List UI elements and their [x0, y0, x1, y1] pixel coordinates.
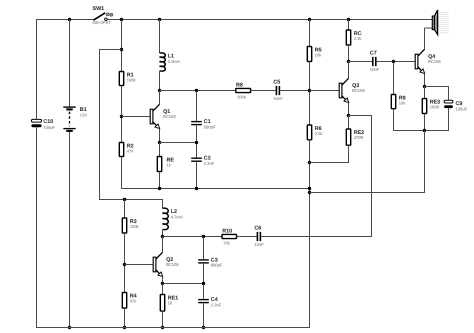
junction mid rail left end [308, 187, 311, 190]
wire C1 to C2 [196, 126, 198, 158]
wire lower-amp supply rail [99, 199, 163, 201]
wire C7 left [349, 61, 373, 63]
wire Q2 base [125, 264, 154, 266]
svg-text:BC108: BC108 [163, 114, 176, 119]
capacitor C9 [444, 100, 453, 103]
junction bottom rail / B1 [68, 326, 71, 329]
svg-text:R8: R8 [236, 82, 243, 88]
junction C3/C4 node [202, 282, 205, 285]
resistor R3 [122, 218, 126, 233]
svg-text:2.2nF: 2.2nF [211, 302, 222, 307]
wire C9 lower [448, 108, 450, 131]
wire mid rail right [310, 192, 426, 194]
resistor R1 [119, 72, 123, 86]
svg-text:10nF: 10nF [254, 242, 264, 247]
capacitor C4 [198, 299, 209, 300]
svg-text:470R: 470R [354, 135, 364, 140]
wire R9 lower [393, 109, 395, 131]
junction Q3 collector node [347, 60, 350, 63]
wire RE2 return horizontal [310, 162, 349, 164]
wire C10 branch lower [36, 127, 38, 328]
junction bottom rail / R4 [123, 326, 126, 329]
wire RE upper [159, 143, 161, 157]
svg-text:SW-SPST: SW-SPST [92, 20, 111, 25]
wire B1 lower [69, 132, 71, 328]
svg-text:70k: 70k [223, 241, 231, 246]
wire lower output bus [163, 236, 223, 238]
junction Q2 collector node [161, 235, 164, 238]
svg-text:47k: 47k [130, 298, 138, 303]
wire Q4 emitter stub [424, 74, 426, 87]
wire Q3 emitter stub [348, 103, 350, 116]
junction Q4 emitter node [423, 85, 426, 88]
junction R3 top [123, 198, 126, 201]
junction Q2 base node [123, 263, 126, 266]
wire R4 lower [124, 308, 126, 327]
svg-text:BC108: BC108 [352, 88, 365, 93]
junction output return [423, 129, 426, 132]
junction C1/C2 node [195, 141, 198, 144]
wire RC upper [348, 20, 350, 31]
wire C9 tap horizontal [425, 86, 450, 88]
junction top rail / R1 branch [120, 18, 123, 21]
svg-text:R10: R10 [222, 228, 232, 234]
capacitor C6 [257, 232, 259, 241]
wire top rail (left of SW1) [36, 19, 94, 21]
resistor RE2 [346, 129, 350, 145]
wire lower-amp supply vertical [99, 50, 101, 200]
junction mid rail / RE [158, 187, 161, 190]
wire Q1 collector stub [159, 91, 161, 105]
resistor R5 [307, 47, 311, 62]
resistor RE [157, 157, 161, 172]
wire collector bus [160, 90, 236, 92]
wire C2 lower [196, 162, 198, 188]
svg-text:100k: 100k [127, 77, 137, 82]
svg-text:12V: 12V [80, 113, 88, 118]
svg-text:BC108: BC108 [166, 262, 179, 267]
wire R2 to mid rail [121, 157, 123, 189]
transistor Q1 [153, 104, 160, 111]
svg-text:10k: 10k [315, 52, 323, 57]
wire Q3 emitter to feedback corner [349, 115, 373, 117]
svg-text:10nF: 10nF [370, 67, 380, 72]
wire R1 to R2 [121, 86, 123, 143]
transistor Q3 [342, 78, 349, 85]
junction bottom rail / RE1 [161, 326, 164, 329]
wire Q2 emitter to C3/C4 node [163, 283, 205, 285]
wire RC to Q3 collector node [348, 45, 350, 62]
junction top rail / R5 [308, 18, 311, 21]
capacitor C7 [372, 57, 374, 66]
transistor Q2 [156, 252, 163, 259]
wire L2 upper [162, 199, 164, 208]
svg-text:100uF: 100uF [43, 125, 55, 130]
wire R5 to R6 [309, 62, 311, 126]
svg-text:10k: 10k [399, 100, 407, 105]
wire bottom rail [36, 327, 310, 329]
wire R3 to R4 [124, 233, 126, 293]
capacitor C10 [31, 119, 41, 122]
wire Q3 base [310, 90, 340, 92]
svg-text:560pF: 560pF [204, 124, 216, 129]
capacitor C3 [198, 259, 209, 260]
speaker LS1 [439, 13, 448, 33]
wire R3 upper [124, 200, 126, 219]
wire C6 to feedback vertical [261, 236, 371, 238]
wire RE1 lower [162, 311, 164, 327]
svg-text:2.2k: 2.2k [354, 36, 363, 41]
junction top rail / B1 [68, 18, 71, 21]
svg-text:C7: C7 [370, 51, 377, 57]
wire RE lower [159, 172, 161, 189]
resistor RE1 [160, 295, 164, 312]
resistor R9 [391, 95, 395, 109]
svg-text:680pF: 680pF [211, 263, 223, 268]
svg-text:100k: 100k [130, 224, 140, 229]
wire L1 lower [159, 71, 161, 90]
wire RE1 upper [162, 284, 164, 295]
svg-text:C5: C5 [273, 80, 280, 86]
wire Q1 base [122, 116, 151, 118]
svg-text:C6: C6 [254, 226, 261, 232]
wire output return vertical [424, 131, 426, 194]
svg-text:SW1: SW1 [93, 6, 105, 12]
svg-text:3.3mH: 3.3mH [168, 59, 180, 64]
svg-text:2.2k: 2.2k [315, 131, 324, 136]
junction bottom rail / C4 [202, 326, 205, 329]
capacitor C1 [191, 121, 202, 122]
wire RE2 lower [348, 145, 350, 163]
switch SW1 [93, 13, 105, 20]
svg-text:10nF: 10nF [273, 96, 283, 101]
wire RE2 upper [348, 116, 350, 130]
svg-text:47k: 47k [127, 148, 135, 153]
wire L2 lower [162, 230, 164, 237]
capacitor C5 [276, 86, 278, 95]
junction top rail / RC [347, 18, 350, 21]
capacitor C2 [191, 158, 202, 159]
wire supply tap horizontal [99, 49, 122, 51]
wire Q1 emitter stub [159, 129, 161, 143]
wire C10 branch upper [36, 19, 38, 120]
junction Q1 base node [120, 115, 123, 118]
junction C3 top [202, 235, 205, 238]
battery B1 [63, 106, 75, 108]
wire top rail (right of SW1) [106, 19, 432, 21]
svg-text:100uF: 100uF [456, 107, 468, 112]
wire R5 upper [309, 20, 311, 47]
wire L1 upper [159, 20, 161, 54]
junction Q1 collector node [158, 89, 161, 92]
resistor R10 [222, 234, 237, 238]
resistor R8 [236, 88, 251, 92]
junction supply tap [120, 48, 123, 51]
wire Q2 emitter stub [162, 277, 164, 284]
wire B1 upper [69, 20, 71, 108]
wire RE3 upper [424, 87, 426, 99]
transistor Q4 [418, 49, 425, 56]
junction mid rail / C2 [195, 187, 198, 190]
wire feedback vertical [371, 115, 373, 237]
svg-text:4.7mH: 4.7mH [171, 215, 183, 220]
junction C1 top [195, 89, 198, 92]
inductor L2 [163, 208, 169, 229]
svg-text:100k: 100k [237, 95, 247, 100]
wire RE3 lower [424, 114, 426, 131]
wire R8 to C5 [251, 90, 276, 92]
wire C4 lower [203, 304, 205, 328]
wire C1 upper [196, 91, 198, 122]
inductor L1 [160, 53, 166, 71]
resistor RE3 [422, 99, 426, 114]
wire mid rail left [121, 188, 310, 190]
wire C7 to Q4 base [377, 61, 416, 63]
resistor R2 [119, 143, 123, 157]
resistor RC [346, 30, 350, 45]
wire C3 upper [203, 237, 205, 260]
wire R6 lower [309, 140, 311, 328]
junction divider node [308, 89, 311, 92]
junction Q2 emitter node [161, 282, 164, 285]
wire C3 to C4 [203, 264, 205, 299]
wire Q3 collector stub [348, 62, 350, 79]
wire R10 to C6 [237, 236, 257, 238]
wire Q4 collector from speaker [424, 28, 426, 50]
junction R9 tap [392, 60, 395, 63]
svg-text:2.2nF: 2.2nF [204, 161, 215, 166]
junction RE2 return [308, 161, 311, 164]
svg-text:100R: 100R [430, 104, 440, 109]
junction Q3 emitter node [347, 114, 350, 117]
junction mid rail right end [308, 191, 311, 194]
wire R9 upper [393, 62, 395, 95]
resistor R6 [307, 125, 311, 140]
svg-text:BC108: BC108 [428, 59, 441, 64]
wire C5 to divider node [280, 90, 309, 92]
wire R1 branch [121, 20, 123, 72]
wire Q1 emitter to C1/C2 node [160, 142, 198, 144]
wire C9 upper [448, 87, 450, 101]
wire Q2 collector stub [162, 237, 164, 253]
wire output-stage return horizontal [393, 130, 449, 132]
junction top rail / L1 [158, 18, 161, 21]
junction Q1 emitter node [158, 141, 161, 144]
resistor R4 [122, 293, 126, 309]
